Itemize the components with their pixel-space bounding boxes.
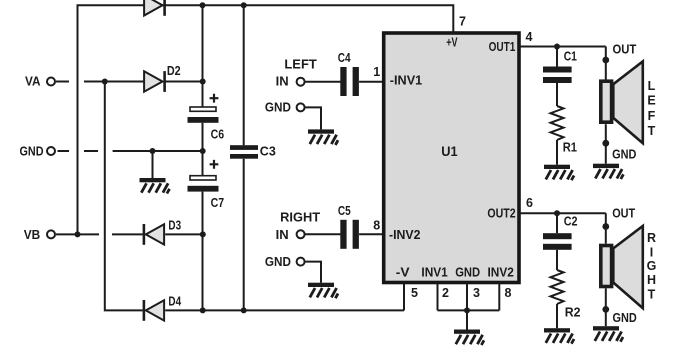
wire C5 to pin 8 bbox=[359, 233, 383, 235]
resistor R2 bbox=[551, 270, 581, 320]
diode D1 bbox=[144, 0, 165, 16]
ground U1 bbox=[454, 310, 484, 345]
svg-text:R: R bbox=[647, 231, 656, 245]
wire speaker to gnd bbox=[605, 124, 607, 164]
svg-text:C2: C2 bbox=[564, 215, 578, 229]
wire top rail bbox=[78, 5, 454, 234]
svg-text:-INV2: -INV2 bbox=[389, 228, 420, 242]
node GND left terminal bbox=[602, 140, 609, 147]
node C3 -V junction bbox=[241, 307, 247, 313]
svg-text:VB: VB bbox=[24, 228, 41, 242]
svg-text:-V: -V bbox=[396, 266, 411, 280]
resistor R1 bbox=[551, 106, 578, 155]
svg-text:5: 5 bbox=[411, 286, 418, 300]
svg-text:8: 8 bbox=[373, 218, 380, 232]
wire OUT1 row bbox=[519, 46, 606, 48]
node top C3 junction bbox=[241, 2, 247, 8]
node C1 junction bbox=[554, 44, 560, 50]
wire VB to D3 cathode bbox=[56, 233, 143, 235]
capacitor C1 bbox=[543, 50, 577, 83]
wire D4 row to -V pin bbox=[165, 309, 404, 311]
wire +V vertical rail x=202.5 bbox=[202, 5, 204, 310]
capacitor C3 bbox=[230, 144, 276, 158]
ground R1 bbox=[544, 140, 574, 180]
svg-text:C3: C3 bbox=[260, 144, 276, 158]
svg-text:R2: R2 bbox=[565, 306, 581, 320]
svg-text:U1: U1 bbox=[441, 144, 458, 159]
wire OUT2 row bbox=[519, 212, 606, 214]
wire C4 to pin 1 bbox=[359, 81, 383, 83]
node GND ground junction bbox=[150, 148, 156, 154]
svg-text:I: I bbox=[650, 245, 653, 259]
wire C3 rail x=243.7 bbox=[243, 5, 245, 310]
svg-text:T: T bbox=[648, 124, 656, 138]
svg-text:D2: D2 bbox=[167, 64, 181, 78]
ground right speaker bbox=[593, 326, 623, 342]
wire D3 anode to -V node bbox=[165, 233, 202, 235]
pin 2 stub bbox=[437, 283, 439, 310]
speaker RIGHT bbox=[601, 226, 643, 308]
speaker LEFT bbox=[601, 61, 643, 143]
diode D2 bbox=[144, 64, 181, 92]
node GND C6C7 junction bbox=[200, 148, 206, 154]
node D2 cathode junction bbox=[200, 79, 206, 85]
node OUT right terminal bbox=[602, 223, 609, 230]
svg-text:OUT: OUT bbox=[613, 43, 637, 57]
svg-text:D4: D4 bbox=[168, 295, 181, 309]
wire VA vertical to D4 row bbox=[105, 82, 143, 311]
op-amp U1 bbox=[384, 33, 519, 283]
wire C1 drop bbox=[556, 47, 558, 67]
wire pins 2-3-8 bus bbox=[438, 309, 500, 311]
capacitor C5 bbox=[338, 204, 359, 249]
svg-text:-INV1: -INV1 bbox=[390, 74, 422, 88]
node D3 anode junction bbox=[200, 231, 206, 237]
wire OUT1 to speaker bbox=[605, 47, 607, 80]
node VB junction bbox=[75, 231, 81, 237]
wire C2 to R2 bbox=[556, 250, 558, 270]
ground right input bbox=[305, 262, 338, 299]
svg-text:+V: +V bbox=[446, 36, 458, 50]
svg-text:D3: D3 bbox=[168, 219, 181, 233]
svg-text:G: G bbox=[647, 259, 657, 273]
capacitor C4 bbox=[338, 51, 359, 96]
svg-text:INV1: INV1 bbox=[421, 266, 447, 280]
svg-text:4: 4 bbox=[526, 30, 533, 44]
node D4 -V junction bbox=[200, 307, 206, 313]
svg-text:RIGHT: RIGHT bbox=[280, 211, 320, 225]
wire OUT2 to speaker bbox=[605, 213, 607, 244]
capacitor C6 bbox=[188, 94, 225, 142]
capacitor C2 bbox=[543, 215, 578, 250]
svg-text:GND: GND bbox=[455, 266, 480, 280]
node pin3 ground junction bbox=[464, 307, 470, 313]
wire C2 drop bbox=[556, 213, 558, 233]
pin 5 stub bbox=[403, 283, 405, 310]
terminal VB bbox=[47, 230, 55, 238]
svg-text:IN: IN bbox=[276, 75, 289, 89]
svg-text:F: F bbox=[648, 109, 656, 123]
node C2 junction bbox=[554, 210, 560, 216]
label RIGHT stacked bbox=[647, 231, 657, 301]
svg-text:T: T bbox=[648, 287, 656, 301]
svg-text:7: 7 bbox=[459, 14, 466, 28]
svg-text:3: 3 bbox=[473, 286, 480, 300]
node GND right terminal bbox=[602, 306, 609, 313]
diode D3 bbox=[144, 219, 181, 245]
svg-text:IN: IN bbox=[276, 228, 289, 242]
svg-text:2: 2 bbox=[442, 286, 449, 300]
svg-text:OUT1: OUT1 bbox=[489, 40, 516, 54]
wire LEFT IN to C4 bbox=[305, 81, 340, 83]
wire VA to D2 anode bbox=[56, 81, 144, 83]
ground input rail bbox=[140, 151, 170, 194]
svg-text:GND: GND bbox=[265, 255, 291, 269]
node OUT left terminal bbox=[602, 57, 609, 64]
svg-text:VA: VA bbox=[25, 75, 41, 89]
svg-text:6: 6 bbox=[526, 196, 533, 210]
capacitor C7 bbox=[188, 160, 225, 210]
ground left speaker bbox=[593, 164, 623, 179]
svg-text:GND: GND bbox=[20, 145, 44, 159]
svg-text:GND: GND bbox=[613, 311, 637, 325]
wire RIGHT IN to C5 bbox=[305, 233, 340, 235]
diode D4 bbox=[144, 295, 181, 321]
svg-text:LEFT: LEFT bbox=[284, 57, 317, 71]
label LEFT stacked bbox=[647, 79, 655, 138]
svg-text:GND: GND bbox=[612, 148, 636, 162]
svg-text:H: H bbox=[647, 273, 656, 287]
svg-text:C7: C7 bbox=[211, 196, 225, 210]
svg-text:E: E bbox=[647, 94, 655, 108]
svg-text:GND: GND bbox=[265, 101, 291, 115]
terminal VA bbox=[47, 78, 55, 86]
node VA-D4 junction bbox=[102, 79, 108, 85]
wire GND row bbox=[58, 150, 203, 152]
pin 3 stub bbox=[466, 283, 468, 310]
svg-text:L: L bbox=[648, 79, 656, 93]
ground R2 bbox=[544, 304, 574, 344]
svg-text:OUT2: OUT2 bbox=[487, 207, 515, 221]
terminal GND left bbox=[47, 147, 55, 155]
svg-text:INV2: INV2 bbox=[488, 266, 514, 280]
wire C1 to R1 bbox=[556, 83, 558, 106]
svg-text:R1: R1 bbox=[563, 141, 577, 155]
svg-text:C4: C4 bbox=[338, 51, 351, 65]
pin 8 stub bbox=[498, 283, 500, 310]
svg-text:C1: C1 bbox=[564, 50, 577, 64]
node top +V junction bbox=[200, 2, 206, 8]
ground left input bbox=[305, 107, 338, 144]
wire right speaker to gnd bbox=[605, 288, 607, 326]
wire D2 cathode to +V node bbox=[166, 81, 203, 83]
svg-text:C5: C5 bbox=[338, 204, 351, 218]
svg-text:OUT: OUT bbox=[612, 207, 635, 221]
svg-text:8: 8 bbox=[505, 286, 512, 300]
svg-text:C6: C6 bbox=[211, 127, 225, 141]
svg-text:1: 1 bbox=[373, 65, 380, 79]
